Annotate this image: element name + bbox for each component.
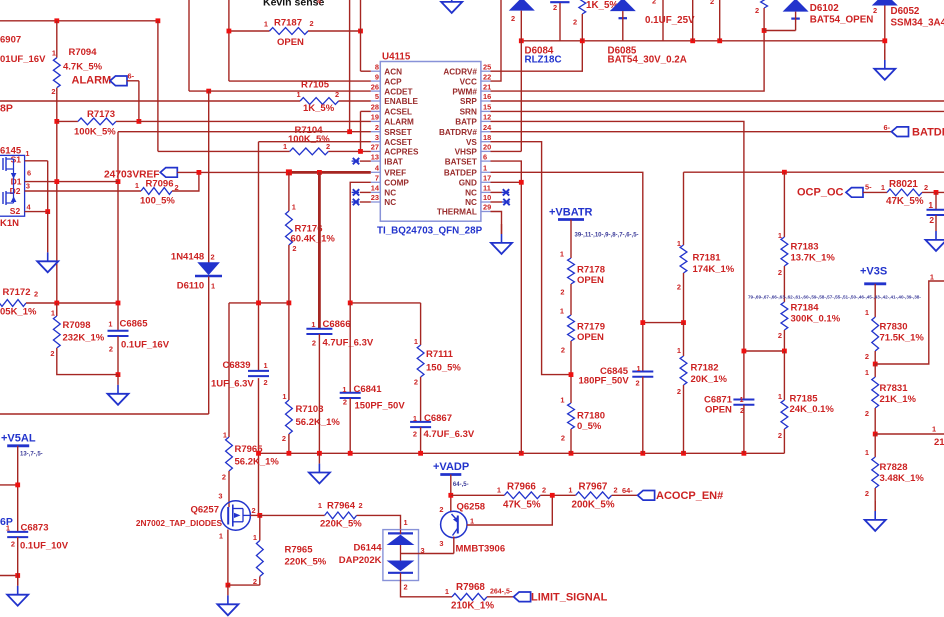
- node junctions top bus: [519, 38, 524, 43]
- svg-text:R7182: R7182: [691, 363, 719, 374]
- node bus junction: [348, 451, 353, 456]
- capacitor C6841 on COMP column: [349, 303, 351, 393]
- resistor top x764 (cut): [761, 0, 768, 8]
- svg-text:VREF: VREF: [384, 169, 406, 178]
- svg-text:2: 2: [252, 506, 256, 515]
- svg-text:ACN: ACN: [384, 67, 402, 76]
- svg-text:21: 21: [483, 82, 491, 91]
- node bus junction: [640, 451, 645, 456]
- svg-text:1: 1: [865, 448, 869, 457]
- resistor R7105: [300, 98, 339, 105]
- node junction R7187 dot: [227, 29, 232, 34]
- svg-text:R7828: R7828: [880, 462, 908, 473]
- wire D6144 pin3 to Q6258 collector: [401, 553, 454, 555]
- svg-text:1: 1: [342, 385, 346, 394]
- no-connect X pin10: [491, 201, 503, 203]
- wire R7830 to right edge riser: [875, 281, 944, 364]
- svg-text:R7180: R7180: [577, 411, 605, 422]
- resistor R7104: [290, 148, 329, 155]
- svg-text:1UF_6.3V: 1UF_6.3V: [211, 379, 254, 390]
- svg-text:1: 1: [932, 425, 936, 434]
- node junctions y351: [742, 349, 747, 354]
- svg-text:2: 2: [573, 18, 577, 27]
- svg-text:OPEN: OPEN: [577, 332, 604, 343]
- svg-text:NC: NC: [465, 189, 477, 198]
- net flag LIMIT_SIGNAL: [514, 592, 531, 602]
- svg-text:6-: 6-: [884, 123, 891, 132]
- svg-text:14: 14: [371, 184, 380, 193]
- svg-text:K1N: K1N: [0, 218, 19, 229]
- svg-text:2: 2: [211, 253, 215, 262]
- ground top x452: [451, 0, 453, 1]
- svg-text:1: 1: [740, 395, 744, 404]
- svg-text:56.2K_1%: 56.2K_1%: [235, 457, 280, 468]
- wire COMP column: [350, 182, 371, 303]
- svg-text:2: 2: [865, 352, 869, 361]
- capacitor C6871: [733, 399, 754, 401]
- svg-text:BAT54_30V_0.2A: BAT54_30V_0.2A: [608, 55, 687, 66]
- svg-text:2: 2: [511, 14, 515, 23]
- node bus junction: [256, 451, 261, 456]
- node junction D6052/bus: [882, 38, 887, 43]
- svg-text:150PF_50V: 150PF_50V: [355, 401, 406, 412]
- node junction SRSET x349.6: [347, 129, 352, 134]
- no-connect X pin13: [360, 160, 371, 162]
- svg-text:18: 18: [483, 133, 491, 142]
- wire ENABLE row with resistor R7105: [0, 100, 300, 102]
- svg-text:SSM34_3A40: SSM34_3A40: [891, 18, 944, 29]
- resistor R7964: [260, 514, 325, 516]
- svg-text:21: 21: [934, 437, 944, 448]
- node junctions y322: [640, 320, 645, 325]
- resistor R7183: [783, 172, 785, 237]
- svg-text:D6052: D6052: [891, 6, 920, 17]
- wire bottom-left long row: [0, 413, 209, 415]
- svg-text:1: 1: [311, 320, 315, 329]
- wire D6144 pin2 to R7968: [401, 581, 453, 597]
- svg-text:300K_0.1%: 300K_0.1%: [791, 314, 841, 325]
- wire to right edge cut resistor: [875, 433, 944, 435]
- wire top-left bus: [0, 20, 158, 22]
- svg-text:OPEN: OPEN: [577, 275, 604, 286]
- svg-text:22: 22: [483, 72, 491, 81]
- node junction source/R7965: [226, 583, 231, 588]
- svg-text:19: 19: [371, 113, 379, 122]
- svg-text:23: 23: [371, 193, 379, 202]
- svg-text:2: 2: [292, 244, 296, 253]
- svg-text:10: 10: [483, 193, 491, 202]
- svg-text:11: 11: [483, 184, 491, 193]
- svg-text:D6102: D6102: [810, 3, 839, 14]
- wire VREF row: [177, 171, 289, 173]
- svg-text:1: 1: [135, 181, 139, 190]
- svg-text:1: 1: [560, 250, 564, 259]
- svg-text:Kevin sense: Kevin sense: [263, 0, 324, 9]
- svg-text:Q6258: Q6258: [457, 502, 486, 513]
- svg-text:R7965: R7965: [285, 545, 314, 556]
- resistor 1K top: [579, 0, 586, 14]
- wire GND pin17: [491, 181, 522, 183]
- svg-text:1: 1: [778, 392, 782, 401]
- svg-text:R7181: R7181: [693, 253, 722, 264]
- svg-text:200K_5%: 200K_5%: [572, 500, 615, 511]
- svg-text:D6144: D6144: [354, 543, 383, 554]
- wire D2 row with resistor R7096: [25, 190, 141, 192]
- svg-text:8P: 8P: [0, 103, 13, 115]
- node bus junction: [519, 451, 524, 456]
- svg-text:SRP: SRP: [460, 97, 477, 106]
- svg-text:220K_5%: 220K_5%: [320, 519, 362, 530]
- ground under right cap: [935, 215, 937, 231]
- svg-text:2: 2: [34, 290, 38, 299]
- svg-text:150_5%: 150_5%: [426, 363, 461, 374]
- svg-text:OPEN: OPEN: [705, 405, 732, 416]
- svg-text:2: 2: [310, 19, 314, 28]
- svg-text:2N7002_TAP_DIODES: 2N7002_TAP_DIODES: [136, 518, 223, 528]
- svg-text:2: 2: [253, 577, 257, 586]
- svg-text:ACP: ACP: [384, 77, 402, 86]
- node junction D1 row at x118: [116, 179, 121, 184]
- svg-text:24703VREF: 24703VREF: [104, 170, 160, 181]
- svg-text:0_5%: 0_5%: [577, 421, 602, 432]
- svg-text:7: 7: [375, 174, 379, 183]
- svg-text:2: 2: [222, 473, 226, 482]
- svg-text:01UF_16V: 01UF_16V: [0, 54, 46, 65]
- svg-text:2: 2: [652, 0, 656, 6]
- wire SRSET row: [118, 131, 371, 133]
- svg-text:1: 1: [865, 308, 869, 317]
- resistor R7176 column: [288, 172, 290, 211]
- svg-text:24K_0.1%: 24K_0.1%: [790, 404, 835, 415]
- svg-text:1: 1: [413, 414, 417, 423]
- node bus junction: [569, 451, 574, 456]
- wire D6084 column to pin20: [520, 11, 522, 152]
- svg-text:232K_1%: 232K_1%: [63, 333, 105, 344]
- resistor R7184: [781, 302, 788, 330]
- svg-text:2: 2: [560, 288, 564, 297]
- resistor R7096: [141, 188, 172, 195]
- svg-text:264-,5-: 264-,5-: [490, 589, 513, 596]
- wire left row y303: [26, 302, 118, 304]
- svg-text:2: 2: [50, 349, 54, 358]
- svg-text:R7183: R7183: [791, 242, 819, 253]
- capacitor C6873: [7, 531, 28, 533]
- svg-text:OPEN: OPEN: [277, 37, 304, 48]
- svg-text:1: 1: [52, 49, 56, 58]
- node junction R7966/R7967: [550, 493, 555, 498]
- svg-text:1: 1: [223, 431, 227, 440]
- svg-text:210K_1%: 210K_1%: [451, 601, 494, 612]
- capacitor C6866 on thick column: [318, 172, 321, 328]
- svg-text:R7111: R7111: [426, 349, 454, 360]
- resistor R7181: [683, 172, 685, 245]
- svg-text:ACOCP_EN#: ACOCP_EN#: [656, 490, 723, 502]
- wire x118 column: [117, 132, 119, 331]
- svg-text:LIMIT_SIGNAL: LIMIT_SIGNAL: [531, 592, 608, 604]
- svg-text:2: 2: [614, 486, 618, 495]
- svg-text:24: 24: [483, 123, 492, 132]
- resistor R7103: [288, 303, 290, 400]
- wire pin28 corner down to ACPRES: [360, 111, 362, 151]
- svg-text:1: 1: [219, 532, 223, 541]
- wire pin22 VCC riser: [491, 0, 502, 81]
- svg-text:2: 2: [636, 379, 640, 388]
- svg-text:C6841: C6841: [354, 384, 383, 395]
- node bus junction: [681, 451, 686, 456]
- capacitor C6867: [410, 421, 431, 423]
- svg-text:220K_5%: 220K_5%: [285, 557, 327, 568]
- wire left rows to +V5AL column: [0, 484, 18, 486]
- node junction segment C: [348, 301, 353, 306]
- wire pin21 PWM# to D6102: [491, 31, 765, 92]
- svg-text:R7094: R7094: [69, 47, 98, 58]
- capacitor 0.1UF_25V lead: [662, 0, 664, 41]
- wire source row: [228, 584, 260, 586]
- svg-text:1: 1: [108, 320, 112, 329]
- node bus junction: [317, 451, 322, 456]
- svg-text:2: 2: [677, 387, 681, 396]
- svg-text:C6839: C6839: [223, 360, 251, 371]
- svg-text:IBAT: IBAT: [384, 157, 403, 166]
- wire VREF thick to pin 4: [289, 171, 371, 174]
- wire x360.5 from top to pin8: [360, 0, 362, 71]
- net flag ACOCP_EN#: [638, 491, 655, 501]
- svg-text:2: 2: [439, 505, 443, 514]
- node junctions y303: [54, 301, 59, 306]
- wire ACDET riser x189: [188, 0, 190, 91]
- svg-text:1: 1: [637, 364, 641, 373]
- svg-text:R7831: R7831: [880, 383, 909, 394]
- svg-text:TI_BQ24703_QFN_28P: TI_BQ24703_QFN_28P: [377, 226, 483, 237]
- svg-text:1: 1: [865, 368, 869, 377]
- capacitor C6865: [108, 330, 129, 332]
- svg-text:2: 2: [404, 583, 408, 592]
- node junction VREF thick: [286, 169, 292, 175]
- svg-text:1: 1: [282, 392, 286, 401]
- svg-text:79-,69-,67-,66-,63-,62-,61-,60: 79-,69-,67-,66-,63-,62-,61-,60-,59-,58-,…: [748, 295, 921, 300]
- wire BATSET pin6 column down: [491, 161, 522, 453]
- resistor R7187: [229, 30, 270, 32]
- svg-text:BATSET: BATSET: [445, 157, 477, 166]
- svg-text:2: 2: [561, 346, 565, 355]
- svg-text:64-: 64-: [622, 486, 633, 495]
- svg-text:2: 2: [343, 398, 347, 407]
- svg-text:SRSET: SRSET: [384, 128, 411, 137]
- wire right row y172: [684, 171, 944, 173]
- svg-text:27: 27: [371, 143, 379, 152]
- IC U4115 TI_BQ24703_QFN_28P: [380, 62, 481, 222]
- svg-text:2: 2: [561, 434, 565, 443]
- svg-text:13.7K_1%: 13.7K_1%: [791, 253, 836, 264]
- svg-text:13: 13: [371, 152, 379, 161]
- transistor Q6257 2N7002: [221, 501, 250, 530]
- svg-text:5: 5: [375, 92, 379, 101]
- wire Q6257 drain to node: [250, 514, 259, 516]
- svg-text:16: 16: [483, 92, 491, 101]
- wire R7184 to C6871 row: [744, 350, 785, 352]
- svg-text:1: 1: [560, 396, 564, 405]
- ground pin29: [501, 224, 503, 234]
- svg-text:2: 2: [740, 406, 744, 415]
- wire pin25 ACDRV#: [491, 41, 583, 71]
- svg-text:ENABLE: ENABLE: [384, 97, 418, 106]
- svg-text:3: 3: [218, 492, 222, 501]
- wire riser x692.7: [692, 0, 694, 41]
- node junction C6865 bottom: [116, 372, 121, 377]
- svg-text:1: 1: [292, 203, 296, 212]
- wire x349.6 from top to SRSET: [349, 0, 351, 132]
- node junction +VADP: [448, 493, 453, 498]
- svg-text:39-,11-,10-,9-,8-,7-,6-,5-: 39-,11-,10-,9-,8-,7-,6-,5-: [575, 233, 639, 239]
- node bus junction: [742, 451, 747, 456]
- wire D1 row: [25, 181, 118, 183]
- wire R7181/R7182 to C6845 row: [643, 322, 684, 324]
- svg-text:100K_5%: 100K_5%: [74, 127, 116, 138]
- ground bottom-left: [17, 576, 19, 586]
- ground at bus x319: [318, 453, 320, 463]
- svg-text:05K_1%: 05K_1%: [0, 307, 37, 318]
- svg-text:26: 26: [371, 82, 379, 91]
- svg-text:60.4K_1%: 60.4K_1%: [291, 234, 336, 245]
- capacitor top edge lead: [550, 1, 569, 3]
- wire pin8 branch: [361, 70, 371, 72]
- svg-text:6907: 6907: [0, 35, 21, 46]
- svg-text:47K_5%: 47K_5%: [886, 196, 924, 207]
- wire ACSET row: [259, 141, 371, 143]
- wire R7964 to D6144: [357, 515, 401, 529]
- svg-text:C6867: C6867: [424, 413, 452, 424]
- svg-text:VCC: VCC: [460, 77, 477, 86]
- svg-text:1: 1: [470, 517, 474, 526]
- svg-text:1: 1: [25, 149, 29, 158]
- wire BATDEP pin1 to C6845 column: [491, 172, 643, 371]
- svg-text:R7967: R7967: [579, 482, 608, 493]
- wire row segment C: [350, 302, 420, 304]
- svg-text:ACSEL: ACSEL: [384, 108, 412, 117]
- svg-text:ALARM: ALARM: [384, 118, 414, 127]
- svg-text:6: 6: [27, 168, 31, 177]
- svg-text:1: 1: [881, 183, 885, 192]
- svg-text:1: 1: [677, 346, 681, 355]
- ground under D6052: [884, 50, 886, 60]
- svg-text:NC: NC: [384, 189, 396, 198]
- svg-text:R7964: R7964: [327, 501, 356, 512]
- svg-text:5-: 5-: [865, 183, 872, 192]
- wire riser x719.7: [719, 0, 721, 41]
- svg-text:2: 2: [175, 183, 179, 192]
- svg-text:R7968: R7968: [456, 582, 485, 593]
- wire ACSET column down to Q6257: [258, 142, 260, 371]
- svg-text:6-: 6-: [128, 72, 135, 81]
- wire ALARM to R7173 junction: [127, 80, 139, 82]
- wire Q6258 collector: [453, 537, 455, 554]
- svg-text:1: 1: [6, 524, 10, 533]
- node junction R7183 top: [782, 170, 787, 175]
- svg-text:2: 2: [375, 123, 379, 132]
- svg-text:2: 2: [778, 431, 782, 440]
- svg-text:OCP_OC: OCP_OC: [797, 187, 844, 199]
- resistor R8021: [863, 191, 887, 193]
- wire ACPRES row with resistor R7104: [158, 150, 290, 152]
- svg-text:2: 2: [865, 489, 869, 498]
- wire pin29 THERMAL to ground: [491, 212, 502, 235]
- svg-text:R7830: R7830: [880, 322, 908, 333]
- svg-text:C6866: C6866: [323, 319, 351, 330]
- resistor R7094: [56, 21, 58, 58]
- wire R7966 row: [451, 494, 505, 496]
- svg-text:VS: VS: [466, 138, 477, 147]
- svg-text:BATP: BATP: [455, 118, 477, 127]
- svg-text:1N4148: 1N4148: [171, 252, 204, 263]
- svg-text:NC: NC: [465, 198, 477, 207]
- svg-text:+VADP: +VADP: [433, 461, 469, 473]
- svg-text:R7966: R7966: [507, 482, 536, 493]
- svg-text:4.7UF_6.3V: 4.7UF_6.3V: [323, 338, 374, 349]
- node junction ACPRES end: [358, 149, 363, 154]
- node junction R7094 top: [54, 18, 59, 23]
- node junction ACDET: [206, 89, 211, 94]
- svg-text:64-,5-: 64-,5-: [453, 482, 469, 488]
- svg-text:1: 1: [253, 533, 257, 542]
- wire pin28 branch: [361, 110, 371, 112]
- no-connect X pin11: [491, 191, 503, 193]
- svg-text:+V3S: +V3S: [860, 266, 887, 278]
- node bus junction: [287, 451, 292, 456]
- svg-text:2: 2: [264, 378, 268, 387]
- svg-text:2: 2: [778, 331, 782, 340]
- svg-text:PWM#: PWM#: [452, 87, 477, 96]
- svg-text:ALARM: ALARM: [72, 75, 112, 87]
- svg-text:COMP: COMP: [384, 179, 409, 188]
- svg-text:2: 2: [51, 87, 55, 96]
- transistor Q6145 dual FET box: [0, 155, 25, 216]
- svg-text:ACPRES: ACPRES: [384, 148, 419, 157]
- svg-text:4.7UF_6.3V: 4.7UF_6.3V: [424, 429, 475, 440]
- svg-text:3: 3: [439, 539, 443, 548]
- wire VS pin18 to R7179/R7180 junction: [491, 142, 572, 375]
- capacitor C6845: [632, 371, 653, 373]
- svg-text:BATDRV#: BATDRV#: [439, 128, 477, 137]
- ground under Q6145: [47, 212, 49, 253]
- svg-text:56.2K_1%: 56.2K_1%: [296, 417, 341, 428]
- svg-text:20K_1%: 20K_1%: [691, 374, 728, 385]
- svg-text:SRN: SRN: [460, 108, 477, 117]
- svg-text:NC: NC: [384, 198, 396, 207]
- svg-text:20: 20: [483, 143, 491, 152]
- resistor R7098: [56, 303, 58, 316]
- svg-text:C6873: C6873: [21, 523, 49, 534]
- svg-text:180PF_50V: 180PF_50V: [579, 376, 630, 387]
- node junction VS net: [569, 372, 574, 377]
- node junction R7830 bottom: [873, 362, 878, 367]
- svg-text:2: 2: [755, 6, 759, 15]
- svg-text:2: 2: [924, 183, 928, 192]
- node junction D1 x56.8: [54, 179, 59, 184]
- svg-text:6: 6: [483, 152, 487, 161]
- svg-text:25: 25: [483, 62, 491, 71]
- svg-text:S2: S2: [10, 206, 21, 216]
- resistor R7173: [57, 120, 78, 122]
- svg-text:R7098: R7098: [63, 320, 91, 331]
- svg-text:2: 2: [553, 3, 557, 12]
- svg-text:2: 2: [710, 0, 714, 6]
- svg-text:3: 3: [375, 133, 379, 142]
- svg-text:0.1UF_25V: 0.1UF_25V: [645, 15, 695, 26]
- wire Q6258 base to divider: [467, 495, 552, 525]
- svg-text:71.5K_1%: 71.5K_1%: [880, 333, 925, 344]
- ground under R7828: [874, 501, 876, 511]
- svg-text:BAT54_OPEN: BAT54_OPEN: [810, 15, 874, 26]
